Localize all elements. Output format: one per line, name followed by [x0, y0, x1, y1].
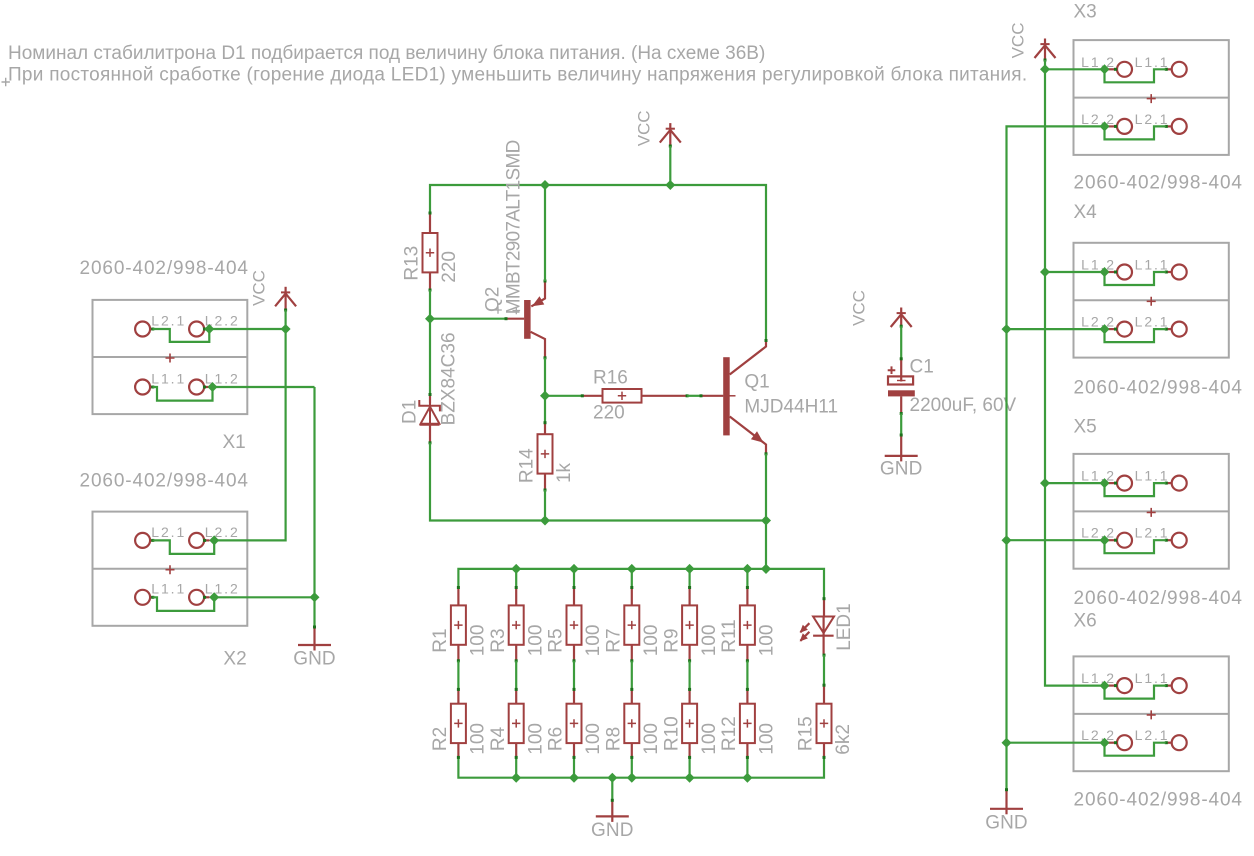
- svg-text:100: 100: [525, 723, 546, 755]
- wire GND bus to pad: [1007, 328, 1105, 330]
- svg-text:100: 100: [757, 723, 778, 755]
- junction: [627, 773, 637, 783]
- junction top rail / Q2 emitter: [540, 180, 550, 190]
- wire: [746, 661, 748, 690]
- junction GND bus left: [310, 592, 320, 602]
- junction X4 pad: [1100, 267, 1110, 277]
- svg-text:R5: R5: [546, 628, 567, 652]
- wire X4 pad link: [1105, 329, 1166, 342]
- svg-text:X3: X3: [1074, 2, 1097, 23]
- wire X6 pad link: [1105, 743, 1166, 756]
- wire Q2 collector to node: [544, 358, 546, 423]
- svg-text:VCC: VCC: [1008, 22, 1027, 58]
- junction X6 pad: [1100, 681, 1110, 691]
- svg-text:R1: R1: [430, 628, 451, 652]
- wire VCC bus to pad: [1045, 68, 1105, 70]
- svg-text:100: 100: [641, 625, 662, 657]
- junction X3 pad: [1100, 121, 1110, 131]
- junction output rail / R14: [540, 516, 550, 526]
- resistor R2: [430, 688, 489, 759]
- resistor R8: [604, 688, 663, 759]
- power symbol VCC (left): [249, 270, 296, 311]
- wire VCC left pin: [285, 310, 287, 329]
- resistor R9: [661, 586, 720, 662]
- svg-text:Q2: Q2: [483, 287, 504, 312]
- junction: [627, 564, 637, 574]
- junction X3 pad: [1100, 64, 1110, 74]
- svg-text:L1.2: L1.2: [205, 581, 240, 597]
- connector X4: [1074, 243, 1229, 358]
- junction: [685, 564, 695, 574]
- svg-text:220: 220: [439, 251, 460, 283]
- svg-text:R8: R8: [604, 727, 625, 751]
- svg-text:L1.1: L1.1: [151, 581, 186, 597]
- junction X2 L2.2: [209, 535, 219, 545]
- svg-text:L2.2: L2.2: [1081, 727, 1116, 743]
- svg-text:Номинал стабилитрона D1 подбир: Номинал стабилитрона D1 подбирается под …: [8, 43, 765, 64]
- svg-text:L1.2: L1.2: [1081, 257, 1116, 273]
- wire: [631, 569, 633, 588]
- wire node to R16: [545, 395, 582, 397]
- wire VCC to C1: [900, 326, 902, 359]
- wire GND bus right: [1007, 126, 1105, 789]
- junction GND bus: [1002, 738, 1012, 748]
- ground symbol (left): [293, 626, 336, 670]
- svg-text:L1.1: L1.1: [1135, 468, 1170, 484]
- wire: [631, 661, 633, 690]
- ground symbol (right): [985, 788, 1028, 833]
- svg-text:L2.1: L2.1: [151, 524, 186, 540]
- svg-text:VCC: VCC: [850, 290, 869, 326]
- resistor R12: [719, 688, 778, 759]
- wire: [457, 661, 459, 690]
- resistor R15: [796, 684, 855, 759]
- connector X2: [93, 512, 248, 626]
- wire X1 pad link L2: [153, 329, 210, 342]
- svg-text:100: 100: [583, 625, 604, 657]
- junction: [742, 564, 752, 574]
- svg-text:L2.1: L2.1: [1135, 525, 1170, 541]
- wire: [688, 569, 690, 588]
- junction: [742, 773, 752, 783]
- svg-text:100: 100: [583, 723, 604, 755]
- capacitor C1: [888, 357, 1017, 417]
- wire VCC bus left: [214, 329, 285, 540]
- LED LED1: [800, 597, 855, 656]
- wire X6 pad link: [1105, 686, 1166, 699]
- wire VCC bus to pad: [1045, 482, 1105, 484]
- wire X1.L2.2 to VCC bus: [209, 328, 285, 330]
- resistor R16: [581, 368, 689, 424]
- junction: [761, 564, 771, 574]
- svg-text:L2.1: L2.1: [1135, 727, 1170, 743]
- svg-text:R9: R9: [661, 628, 682, 652]
- svg-text:GND: GND: [293, 649, 336, 670]
- svg-text:2060-402/998-404: 2060-402/998-404: [80, 471, 249, 492]
- svg-text:2060-402/998-404: 2060-402/998-404: [80, 258, 249, 279]
- svg-text:100: 100: [525, 625, 546, 657]
- junction Q2.C / R14 / R16: [540, 391, 550, 401]
- svg-text:L1.2: L1.2: [205, 370, 240, 386]
- svg-text:L1.1: L1.1: [1135, 54, 1170, 70]
- wire: [515, 661, 517, 690]
- svg-text:R15: R15: [796, 716, 817, 751]
- resistor R10: [661, 688, 720, 759]
- junction X5 pad: [1100, 535, 1110, 545]
- transistor Q1: [700, 339, 839, 455]
- svg-text:100: 100: [468, 625, 489, 657]
- svg-text:220: 220: [593, 403, 625, 424]
- power symbol VCC (right): [1008, 22, 1055, 61]
- wire GND bus left: [313, 387, 315, 627]
- svg-text:R4: R4: [488, 726, 509, 751]
- svg-text:R6: R6: [546, 727, 567, 751]
- wire C1 to GND: [900, 414, 902, 436]
- wire: [573, 757, 575, 777]
- svg-text:R11: R11: [719, 619, 740, 652]
- resistor R13: [402, 212, 461, 292]
- svg-text:C1: C1: [910, 357, 934, 378]
- wire X1 pad link L1: [153, 387, 213, 401]
- ground symbol (bank): [591, 799, 634, 841]
- svg-text:R13: R13: [402, 246, 423, 281]
- svg-text:R12: R12: [719, 716, 740, 751]
- wire: [515, 757, 517, 777]
- wire VCC top rail: [430, 185, 766, 341]
- svg-text:MJD44H11: MJD44H11: [744, 397, 838, 418]
- svg-text:L2.2: L2.2: [205, 524, 240, 540]
- wire R13 bottom to D1: [429, 290, 431, 395]
- connector X3: [1074, 40, 1229, 155]
- junction top rail / VCC: [665, 180, 675, 190]
- junction X1 L1.2: [208, 382, 218, 392]
- wire GND bus to pad: [1007, 742, 1105, 744]
- wire output rail: [430, 443, 766, 521]
- junction VCC bus / X1.L2.2: [281, 324, 291, 334]
- wire: [688, 757, 690, 777]
- svg-text:L2.2: L2.2: [1081, 111, 1116, 127]
- junction X2 L1.2: [209, 592, 219, 602]
- wire Q2 emitter to VCC rail: [544, 185, 546, 281]
- junction base node: [425, 314, 435, 324]
- svg-text:GND: GND: [880, 459, 923, 480]
- svg-text:GND: GND: [985, 813, 1028, 834]
- resistor R7: [604, 586, 663, 662]
- connector X1: [93, 300, 248, 414]
- svg-text:100: 100: [757, 625, 778, 657]
- svg-text:L2.1: L2.1: [151, 312, 186, 328]
- svg-text:L2.2: L2.2: [1081, 525, 1116, 541]
- wire X2 pad link L2: [153, 540, 215, 554]
- wire X5 pad link: [1105, 540, 1166, 553]
- junction VCC bus: [1040, 267, 1050, 277]
- svg-text:100: 100: [699, 625, 720, 657]
- junction X1 L2.2: [204, 324, 214, 334]
- wire R14 bottom: [544, 490, 546, 521]
- svg-text:L1.1: L1.1: [1135, 257, 1170, 273]
- wire: [746, 757, 748, 777]
- wire VCC bus to pad: [1045, 271, 1105, 273]
- svg-text:R3: R3: [488, 628, 509, 652]
- junction: [569, 564, 579, 574]
- resistor R11: [719, 586, 778, 662]
- junction GND tap: [607, 773, 617, 783]
- wire X1.L1.2 to GND bus: [213, 386, 315, 388]
- zener diode D1: [400, 332, 460, 444]
- wire: [631, 757, 633, 777]
- junction GND bus: [1002, 324, 1012, 334]
- svg-text:R14: R14: [517, 448, 538, 483]
- svg-text:R10: R10: [661, 716, 682, 751]
- wire X2.L1.2 to GND bus: [214, 596, 314, 598]
- svg-text:1k: 1k: [554, 462, 575, 483]
- svg-text:X2: X2: [223, 649, 246, 670]
- resistor R3: [488, 586, 547, 662]
- resistor R4: [488, 688, 547, 759]
- wire R16 to Q1 base: [687, 395, 701, 397]
- junction output rail / Q1 emitter: [761, 516, 771, 526]
- junction X6 pad: [1100, 738, 1110, 748]
- svg-text:D1: D1: [400, 400, 421, 424]
- svg-text:Q1: Q1: [744, 372, 769, 393]
- text origin cross: [2, 78, 10, 86]
- wire VCC bus right: [1045, 60, 1105, 686]
- svg-text:100: 100: [699, 723, 720, 755]
- junction GND bus: [1002, 535, 1012, 545]
- resistor R14: [517, 421, 576, 491]
- wire: [746, 569, 748, 588]
- junction Q1 emitter / bank rail: [761, 564, 771, 574]
- svg-text:L1.2: L1.2: [1081, 54, 1116, 70]
- connector X6: [1074, 656, 1229, 771]
- svg-text:X1: X1: [223, 432, 246, 453]
- junction X4 pad: [1100, 324, 1110, 334]
- svg-text:2060-402/998-404: 2060-402/998-404: [1074, 377, 1243, 398]
- svg-text:L1.2: L1.2: [1081, 468, 1116, 484]
- wire X3 pad link: [1105, 69, 1166, 82]
- wire X5 pad link: [1105, 483, 1166, 496]
- svg-text:VCC: VCC: [249, 270, 268, 306]
- wire bank bottom rail: [458, 757, 824, 777]
- power symbol VCC (middle): [634, 110, 680, 147]
- wire GND bus to pad: [1007, 539, 1105, 541]
- wire X3 pad link: [1105, 126, 1166, 139]
- junction VCC bus: [1040, 478, 1050, 488]
- svg-text:X6: X6: [1074, 611, 1097, 632]
- ground symbol (C1): [880, 434, 923, 480]
- junction: [685, 773, 695, 783]
- svg-text:2060-402/998-404: 2060-402/998-404: [1074, 790, 1243, 811]
- wire LED1 to R15: [823, 655, 825, 685]
- resistor R1: [430, 586, 489, 662]
- svg-text:X4: X4: [1074, 202, 1098, 223]
- svg-text:100: 100: [468, 723, 489, 755]
- svg-text:L1.2: L1.2: [1081, 670, 1116, 686]
- wire: [573, 569, 575, 588]
- junction VCC bus: [1040, 64, 1050, 74]
- wire Q1 emitter down: [765, 454, 767, 569]
- svg-text:6k2: 6k2: [833, 724, 854, 755]
- svg-text:При постоянной сработке (горен: При постоянной сработке (горение диода L…: [8, 65, 1027, 86]
- svg-text:100: 100: [641, 723, 662, 755]
- svg-text:R7: R7: [604, 628, 625, 652]
- junction: [569, 773, 579, 783]
- svg-text:L1.1: L1.1: [151, 370, 186, 386]
- svg-text:X5: X5: [1074, 417, 1097, 438]
- svg-text:R16: R16: [593, 368, 628, 389]
- svg-text:L1.1: L1.1: [1135, 670, 1170, 686]
- power symbol VCC (C1): [850, 290, 912, 328]
- wire VCC middle pin: [669, 146, 671, 185]
- junction: [511, 564, 521, 574]
- svg-text:GND: GND: [591, 820, 634, 841]
- wire: [573, 661, 575, 690]
- svg-text:MMBT2907ALT1SMD: MMBT2907ALT1SMD: [504, 140, 525, 314]
- junction: [511, 773, 521, 783]
- svg-text:2060-402/998-404: 2060-402/998-404: [1074, 588, 1243, 609]
- wire bottom rail to GND: [611, 778, 613, 801]
- svg-text:R2: R2: [430, 727, 451, 751]
- wire X4 pad link: [1105, 272, 1166, 285]
- wire X2 pad link L1: [153, 597, 215, 611]
- resistor R6: [546, 688, 605, 759]
- svg-text:VCC: VCC: [634, 110, 653, 146]
- wire base node to Q2 base: [430, 318, 506, 320]
- svg-text:L2.1: L2.1: [1135, 314, 1170, 330]
- junction X5 pad: [1100, 478, 1110, 488]
- svg-text:2200uF, 60V: 2200uF, 60V: [910, 395, 1017, 416]
- svg-text:BZX84C36: BZX84C36: [439, 332, 460, 425]
- resistor R5: [546, 586, 605, 662]
- wire bank top rail: [458, 569, 824, 599]
- svg-text:L2.1: L2.1: [1135, 111, 1170, 127]
- svg-text:2060-402/998-404: 2060-402/998-404: [1074, 172, 1243, 193]
- wire: [688, 661, 690, 690]
- connector X5: [1074, 454, 1229, 569]
- transistor Q2: [483, 140, 547, 359]
- svg-text:L2.2: L2.2: [1081, 314, 1116, 330]
- svg-text:LED1: LED1: [834, 603, 855, 651]
- wire: [515, 569, 517, 588]
